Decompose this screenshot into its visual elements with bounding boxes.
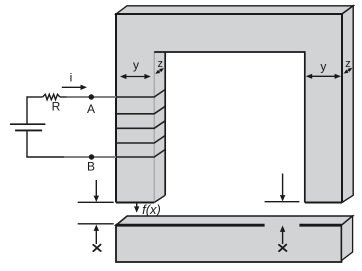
armature top face <box>116 216 353 225</box>
wire bottom from battery to node B gray <box>26 156 116 158</box>
battery V short plate <box>15 129 42 131</box>
resistor R <box>43 94 60 99</box>
core top face <box>116 6 353 14</box>
label y right <box>320 60 326 74</box>
gap dimension left lower arrow <box>78 224 114 244</box>
wire top from battery to resistor <box>27 96 43 98</box>
svg-text:R: R <box>52 100 61 114</box>
dimension y right arrow <box>306 74 341 79</box>
label x left <box>93 245 101 252</box>
battery V long plate <box>10 123 45 125</box>
force arrow f(x) <box>134 202 139 213</box>
armature right side face <box>342 216 353 261</box>
gap dimension right upper arrow <box>265 174 300 202</box>
wire resistor to node A gray <box>60 96 116 98</box>
battery wire upper <box>26 96 28 124</box>
label x right <box>279 245 287 252</box>
label R <box>52 100 61 114</box>
gap dimension left upper arrow <box>78 180 114 202</box>
svg-text:f(x): f(x) <box>142 202 161 217</box>
dimension z left arrow <box>155 68 164 74</box>
svg-text:z: z <box>345 58 351 70</box>
core front face outline <box>116 14 342 203</box>
gap dimension right lower arrow <box>280 226 285 245</box>
svg-text:A: A <box>87 102 95 116</box>
coil winding turn 3 <box>116 121 165 129</box>
coil winding turn 5 <box>116 150 165 158</box>
label A <box>87 102 95 116</box>
svg-text:y: y <box>320 60 326 74</box>
svg-text:z: z <box>158 58 164 70</box>
node B <box>89 154 94 159</box>
core right leg side face <box>342 6 353 203</box>
coil winding turn 1 <box>116 90 165 98</box>
label f(x) <box>142 202 161 217</box>
current arrow i <box>62 85 87 90</box>
label z right <box>345 58 351 70</box>
node A <box>89 94 94 99</box>
svg-text:B: B <box>87 160 95 174</box>
core C-shaped magnetic core front face <box>116 14 342 203</box>
svg-text:y: y <box>133 58 139 72</box>
label B <box>87 160 95 174</box>
battery wire lower <box>26 130 28 157</box>
armature bottom bar front face <box>116 225 342 262</box>
label z left <box>158 58 164 70</box>
svg-text:i: i <box>70 71 73 85</box>
core left leg inner side face <box>154 52 165 203</box>
dimension z right arrow <box>344 68 353 74</box>
coil winding turn 4 <box>116 136 165 144</box>
dimension y left arrow <box>120 74 151 79</box>
armature front top edge thick line <box>116 223 342 227</box>
label i <box>70 71 73 85</box>
label y left <box>133 58 139 72</box>
coil winding turn 2 <box>116 106 165 114</box>
